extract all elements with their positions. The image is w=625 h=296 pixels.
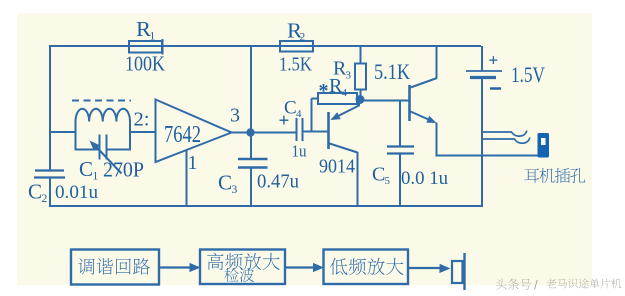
svg-text:2: 2 <box>300 32 306 44</box>
svg-text:+: + <box>279 111 290 132</box>
svg-text:5: 5 <box>385 175 391 187</box>
svg-text:5.1K: 5.1K <box>374 59 410 84</box>
svg-text:*: * <box>319 80 329 102</box>
svg-text:1: 1 <box>150 31 156 43</box>
svg-text:3: 3 <box>346 70 352 82</box>
svg-text:100K: 100K <box>125 52 165 76</box>
svg-text:0.47u: 0.47u <box>257 171 299 193</box>
svg-text:1: 1 <box>188 152 198 174</box>
svg-text:0.01u: 0.01u <box>55 182 99 203</box>
svg-text:7642: 7642 <box>164 122 201 148</box>
svg-text:1: 1 <box>93 171 99 183</box>
svg-text:270P: 270P <box>103 158 144 182</box>
svg-text:9014: 9014 <box>319 156 355 178</box>
svg-text:2: 2 <box>42 193 48 205</box>
svg-text:2:: 2: <box>134 109 150 131</box>
svg-text:4: 4 <box>296 108 302 120</box>
svg-text:C: C <box>372 164 385 186</box>
svg-text:C: C <box>218 171 232 195</box>
svg-text:0.0 1u: 0.0 1u <box>401 168 448 189</box>
svg-text:C: C <box>28 180 42 204</box>
svg-text:3: 3 <box>232 184 238 196</box>
svg-text:+: + <box>489 51 499 70</box>
svg-text:C: C <box>79 157 93 181</box>
svg-text:1.5K: 1.5K <box>279 54 312 76</box>
svg-text:/: / <box>534 278 538 293</box>
svg-text:1.5V: 1.5V <box>511 62 545 87</box>
svg-text:1u: 1u <box>292 142 307 161</box>
svg-text:3: 3 <box>230 105 240 127</box>
svg-text:4: 4 <box>342 87 348 99</box>
